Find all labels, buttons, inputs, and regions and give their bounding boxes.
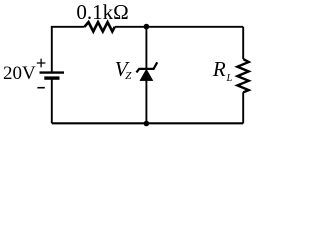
- node junction top (zener tap): [144, 24, 150, 30]
- battery V1 bottom plate (negative, short thick): [44, 76, 59, 79]
- resistor RL zigzag: [237, 59, 248, 92]
- svg-text:R: R: [212, 57, 226, 81]
- svg-text:0.1kΩ: 0.1kΩ: [76, 0, 128, 24]
- wire top-left segment (left corner to resistor): [52, 26, 85, 29]
- svg-text:L: L: [226, 73, 233, 84]
- wire right upper (top-right corner down to RL): [242, 27, 244, 59]
- wire left lower (battery to bottom-left corner): [51, 78, 53, 123]
- zener diode VZ anode triangle: [140, 69, 153, 80]
- resistor R1 0.1k zigzag: [85, 22, 115, 31]
- wire left upper (corner down to battery top plate): [51, 27, 53, 72]
- plus sign of battery: [37, 59, 46, 68]
- svg-text:20V: 20V: [3, 63, 36, 84]
- wire zener lower (triangle to bottom junction): [145, 81, 147, 124]
- wire top-right segment (resistor to top-right corner): [115, 26, 243, 28]
- minus sign of battery: [37, 87, 44, 89]
- wire right lower (RL to bottom-right corner): [242, 92, 244, 123]
- svg-text:Z: Z: [125, 70, 132, 82]
- battery V1 top plate (positive, long): [40, 71, 65, 73]
- wire bottom (bottom-left to bottom-right): [52, 122, 243, 124]
- zener diode VZ cathode bar with bent ends: [136, 62, 157, 72]
- node junction bottom (zener to bottom wire): [144, 121, 150, 127]
- wire zener upper (top junction down to zener bar): [145, 27, 147, 69]
